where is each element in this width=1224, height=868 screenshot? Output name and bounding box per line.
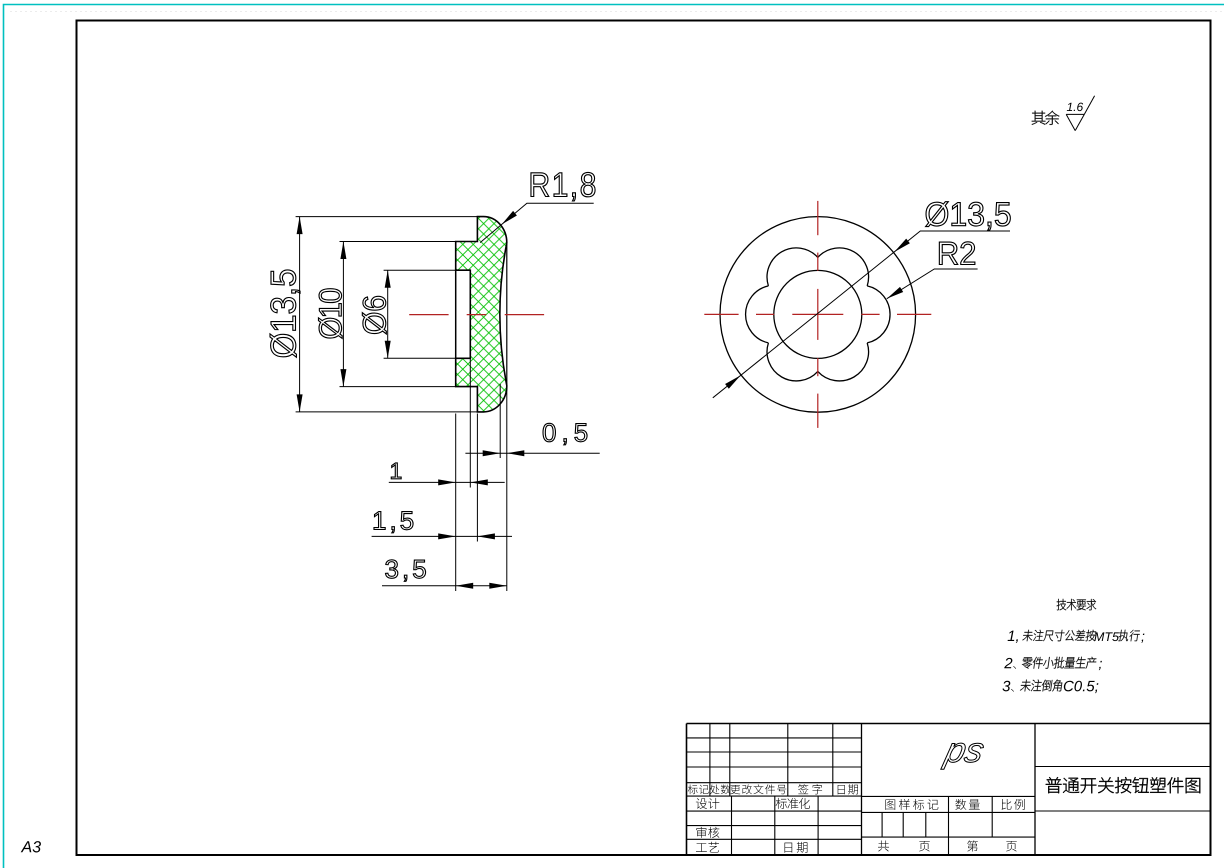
inner circle Ø6: [774, 270, 862, 358]
leader R1,8: [480, 203, 594, 242]
tech requirement line 3: [1002, 681, 1010, 692]
faint dotted margin (top): [10, 11, 1224, 13]
leader R2: [887, 269, 978, 299]
dimension Ø13,5 (section): [299, 217, 301, 412]
surface note text: [1032, 111, 1046, 125]
dimension 0,5: [465, 452, 599, 454]
tech requirement line 2: [1004, 658, 1012, 668]
extension lines (widths): [455, 414, 457, 592]
section hatch (green crosshatch): [456, 217, 507, 412]
section outline: [456, 217, 507, 412]
dimension Ø6: [387, 270, 389, 358]
outer circle Ø13,5: [720, 217, 916, 413]
title block left grid: [687, 737, 862, 739]
leader Ø13,5 (front view): [713, 231, 1010, 398]
recess mouth rim edge: [455, 270, 457, 358]
tech requirements title: [1057, 599, 1067, 610]
surface roughness symbol 1.6: [1066, 113, 1084, 115]
drawing title: [1046, 777, 1062, 793]
tech requirement line 1: [1008, 631, 1018, 643]
quantity/scale labels: [885, 800, 895, 810]
dimension 1,5: [372, 535, 512, 537]
front view centerlines (red): [704, 313, 738, 315]
dimension 1: [389, 481, 505, 483]
material mark ps: [941, 743, 985, 769]
signature labels: [696, 798, 707, 809]
dimension Ø10: [342, 242, 344, 387]
sheet size label A3: [21, 841, 41, 852]
petal flower outline (R2 x6): [746, 248, 890, 381]
title block middle grid: [862, 795, 1036, 797]
revision row labels: [688, 784, 698, 794]
extension lines (diameters): [296, 216, 478, 218]
dimension 3,5: [382, 585, 507, 587]
section centerline (red): [409, 314, 448, 316]
title block outer lines: [687, 723, 1211, 725]
title block right grid: [1035, 766, 1211, 768]
dome silhouette edge: [506, 244, 508, 385]
